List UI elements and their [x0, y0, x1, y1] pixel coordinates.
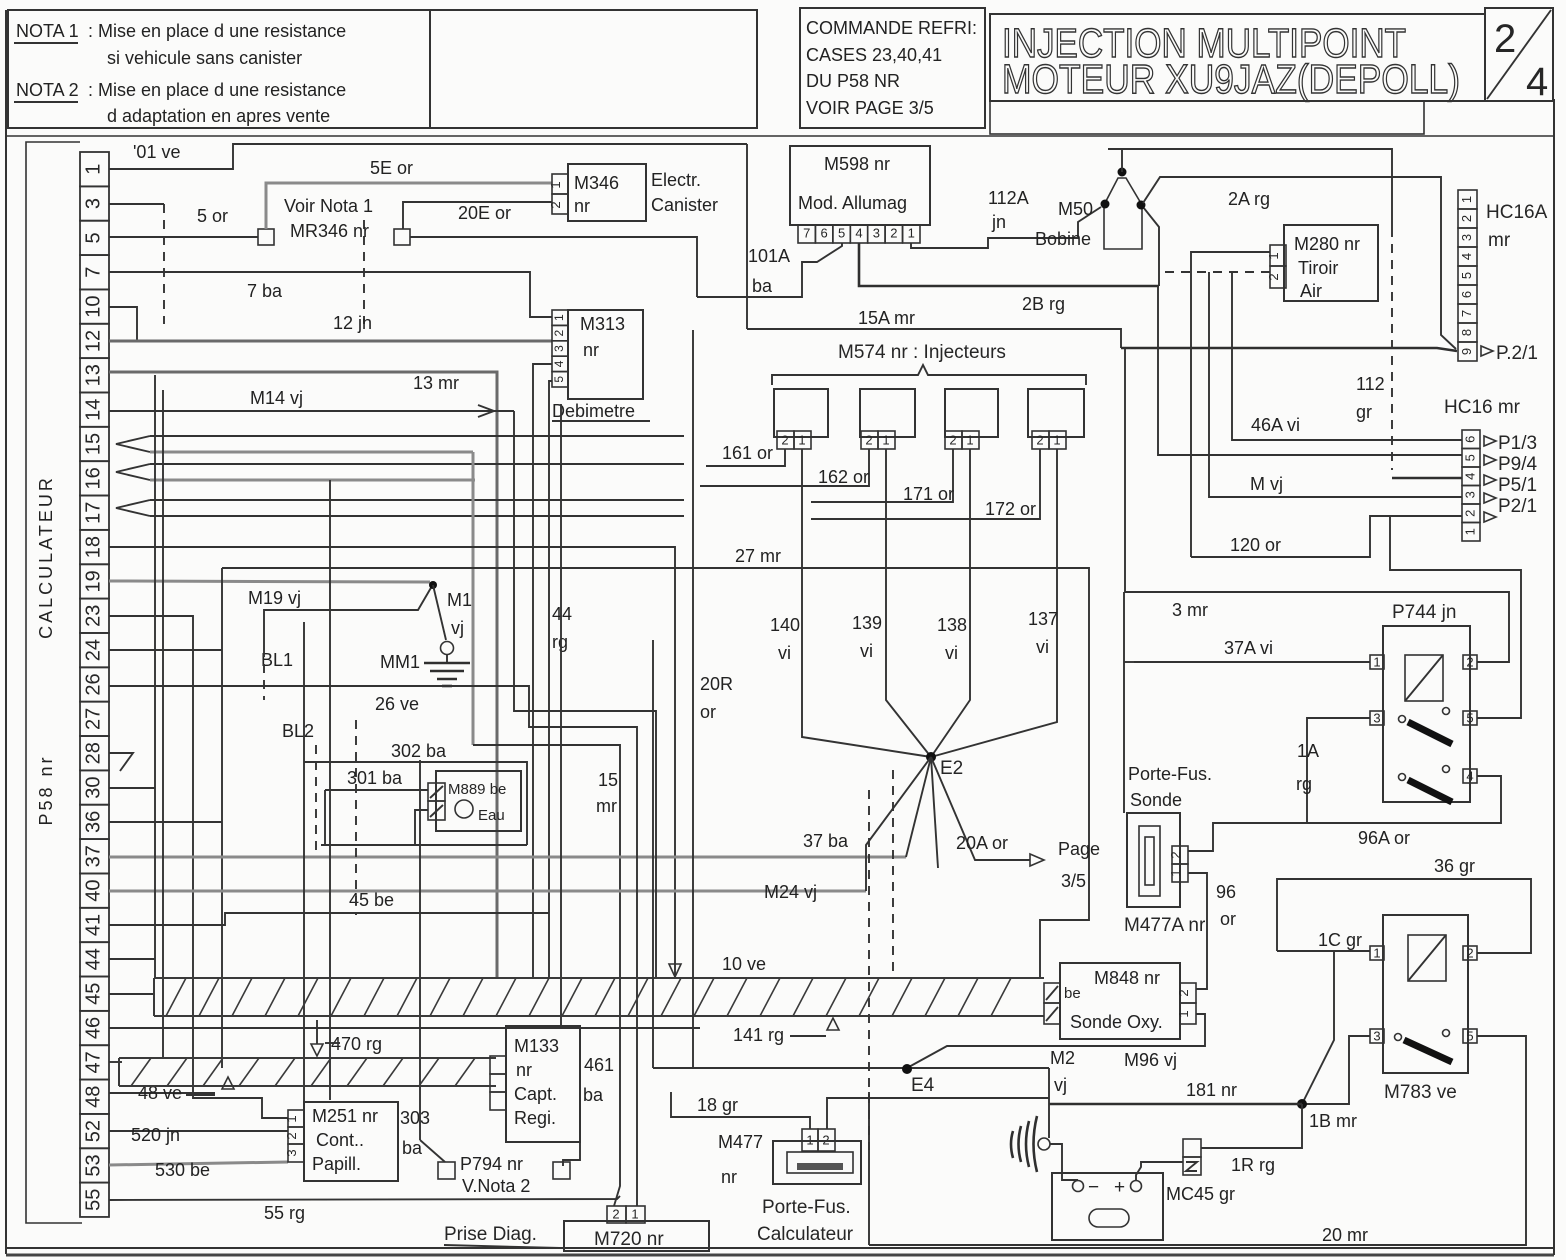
wire coil minus to HC16 pin5 — [1158, 286, 1462, 455]
svg-text:E4: E4 — [911, 1075, 935, 1096]
svg-text:Porte-Fus.: Porte-Fus. — [762, 1197, 851, 1218]
wire to M313 pin4 — [533, 364, 552, 978]
svg-text:37 ba: 37 ba — [803, 831, 849, 851]
pair wires pin17 to diag connector — [150, 499, 684, 501]
canister valve M346 — [548, 164, 718, 221]
svg-text:rg: rg — [1296, 774, 1312, 794]
svg-text:Regi.: Regi. — [514, 1108, 556, 1128]
svg-text:7: 7 — [1459, 310, 1474, 317]
svg-text:5: 5 — [552, 376, 566, 383]
svg-text:41: 41 — [82, 914, 104, 936]
wire pin 30 — [109, 787, 155, 789]
throttle pot M251 — [284, 1102, 398, 1181]
svg-text:36 gr: 36 gr — [1434, 856, 1475, 876]
svg-text:461: 461 — [584, 1055, 614, 1075]
wire M14 vj (pin 14) with arrow — [109, 410, 514, 412]
wire 46A vi — [1232, 272, 1462, 440]
wire M vj — [1209, 272, 1462, 497]
bus vertical x155 — [154, 375, 156, 978]
svg-text:V.Nota 2: V.Nota 2 — [462, 1176, 530, 1196]
svg-text:27: 27 — [82, 708, 104, 730]
ignition module M598 — [790, 146, 930, 225]
svg-text:1B mr: 1B mr — [1309, 1111, 1357, 1131]
svg-text:96: 96 — [1216, 882, 1236, 902]
svg-text:18 gr: 18 gr — [697, 1095, 738, 1115]
svg-text:4: 4 — [1459, 253, 1474, 260]
svg-text:CASES 23,40,41: CASES 23,40,41 — [806, 45, 942, 65]
wire M783 pin3 to 1B node — [1303, 1036, 1370, 1104]
wire E2 to 37ba — [906, 757, 931, 857]
svg-text:Page: Page — [1058, 839, 1100, 859]
wire 20E or — [403, 202, 552, 229]
svg-text:2: 2 — [865, 432, 872, 447]
water temp sensor M889 — [428, 771, 521, 831]
svg-text:8: 8 — [1459, 329, 1474, 336]
wire 301 ba — [325, 789, 428, 791]
svg-text:17: 17 — [82, 502, 104, 524]
svg-text:1: 1 — [552, 314, 566, 321]
twisted pair chevron pin 17 — [116, 500, 150, 516]
svg-text:NOTA 1: NOTA 1 — [16, 21, 79, 41]
svg-text:1: 1 — [82, 164, 104, 175]
svg-text:P5/1: P5/1 — [1498, 475, 1537, 496]
svg-text:3: 3 — [284, 1149, 299, 1156]
svg-text:302 ba: 302 ba — [391, 741, 447, 761]
wire pin 18 — [109, 547, 675, 978]
wire 1C branch to 1B node — [1303, 951, 1334, 1102]
wire 5E or — [266, 183, 552, 229]
wire 13 mr (pin 13 to M313 pin3) — [109, 372, 497, 978]
shielded harness band 1 — [154, 978, 1044, 1016]
svg-text:3: 3 — [1459, 234, 1474, 241]
header bottom rule — [6, 135, 1554, 137]
svg-text:4: 4 — [552, 360, 566, 367]
svg-text:2: 2 — [1176, 989, 1191, 996]
svg-text:45: 45 — [82, 983, 104, 1005]
wire pin 47 into band — [109, 1061, 122, 1063]
svg-text:1: 1 — [284, 1115, 299, 1122]
bus vertical x330 — [329, 480, 331, 1100]
svg-text:2: 2 — [1168, 851, 1183, 858]
node E2 — [926, 752, 936, 762]
wire 26 ve — [109, 686, 637, 1206]
svg-text:1: 1 — [548, 181, 563, 188]
svg-text:23: 23 — [82, 605, 104, 627]
wire 2A rg (coil to HC16A pin9) — [1143, 177, 1456, 349]
svg-text:96A or: 96A or — [1358, 828, 1410, 848]
svg-text:Mod. Allumag: Mod. Allumag — [798, 193, 907, 213]
svg-text:10 ve: 10 ve — [722, 954, 766, 974]
svg-text:vj: vj — [451, 618, 464, 638]
svg-text:6: 6 — [1459, 291, 1474, 298]
svg-text:1: 1 — [1266, 252, 1281, 259]
svg-text:162 or: 162 or — [818, 467, 869, 487]
svg-text:mr: mr — [596, 796, 617, 816]
svg-text:13 mr: 13 mr — [413, 373, 459, 393]
svg-text:40: 40 — [82, 879, 104, 901]
svg-text:47: 47 — [82, 1051, 104, 1073]
svg-text:1: 1 — [882, 432, 889, 447]
svg-text:P1/3: P1/3 — [1498, 433, 1537, 454]
svg-text:44: 44 — [552, 604, 572, 624]
svg-text:138: 138 — [937, 615, 967, 635]
svg-text:7: 7 — [803, 225, 810, 240]
svg-text:7: 7 — [82, 267, 104, 278]
wire 55 rg (pin 55) — [109, 1196, 620, 1200]
wire 120 or — [1191, 516, 1462, 557]
svg-text:141 rg: 141 rg — [733, 1025, 784, 1045]
injector 2 — [860, 389, 915, 437]
svg-text:112: 112 — [1356, 374, 1385, 394]
svg-text:M133: M133 — [514, 1036, 559, 1056]
page border right — [1553, 99, 1555, 1255]
connector HC16A — [1458, 190, 1477, 361]
svg-text:2A rg: 2A rg — [1228, 189, 1270, 209]
svg-text:3: 3 — [552, 345, 566, 352]
svg-text:5: 5 — [1462, 454, 1477, 461]
fuse holder M477 (Porte-Fus. Calculateur) — [718, 1129, 861, 1245]
svg-text:7 ba: 7 ba — [247, 281, 283, 301]
dashed shield BL1 — [263, 648, 265, 700]
svg-text:5: 5 — [838, 225, 845, 240]
svg-text:112A: 112A — [988, 188, 1029, 208]
svg-text:53: 53 — [82, 1154, 104, 1176]
svg-text:2: 2 — [949, 432, 956, 447]
svg-text:COMMANDE REFRI:: COMMANDE REFRI: — [806, 18, 977, 38]
svg-text:530 be: 530 be — [155, 1160, 210, 1180]
svg-text:4: 4 — [1526, 60, 1548, 104]
wire 48 ve (pin 48) — [109, 1092, 215, 1094]
svg-text:nr: nr — [721, 1167, 737, 1187]
svg-text:27 mr: 27 mr — [735, 546, 781, 566]
svg-text:3: 3 — [1373, 710, 1380, 725]
svg-text:48: 48 — [82, 1086, 104, 1108]
svg-text:12: 12 — [82, 330, 104, 352]
svg-text:Prise Diag.: Prise Diag. — [444, 1224, 537, 1245]
svg-text:nr: nr — [583, 340, 599, 360]
svg-text:5: 5 — [1459, 272, 1474, 279]
marker 470 rg — [311, 1044, 323, 1056]
svg-text:M50: M50 — [1058, 199, 1093, 219]
arrow P.2/1 — [1481, 346, 1493, 356]
svg-text:Voir Nota 1: Voir Nota 1 — [284, 196, 373, 216]
switch M1 contact — [429, 581, 437, 589]
wire 20 mr (M783 pin5 loop) — [869, 1036, 1526, 1245]
wire 140 vi (injector1 to E2) — [802, 449, 931, 757]
svg-text:18: 18 — [82, 536, 104, 558]
svg-text:1A: 1A — [1297, 741, 1319, 761]
svg-text:24: 24 — [82, 639, 104, 661]
svg-text:+: + — [1114, 1177, 1125, 1198]
svg-text:CALCULATEUR: CALCULATEUR — [36, 475, 56, 639]
diagnostic socket M720 — [564, 1206, 709, 1251]
marker 141 rg — [827, 1018, 839, 1030]
wire 12 jn (pin 12 to M313 pin2) — [109, 340, 552, 343]
coil M50 body — [1104, 178, 1142, 249]
svg-text:140: 140 — [770, 615, 800, 635]
NOTA text — [16, 21, 346, 126]
COMMANDE box — [800, 8, 985, 128]
fuse holder M477A (Porte-Fus. Sonde) — [1124, 764, 1212, 936]
svg-text:1: 1 — [1176, 1010, 1191, 1017]
connector P58 CALCULATEUR outline box — [26, 142, 82, 1223]
wire to M313 pin5 — [549, 381, 552, 978]
vertical pair x493/504 — [514, 411, 656, 978]
svg-text:vi: vi — [1036, 637, 1049, 657]
svg-text:46A vi: 46A vi — [1251, 415, 1300, 435]
air flow meter M313 — [552, 310, 650, 421]
connector strip P58 (31 pins) — [80, 152, 109, 1217]
wire pin 24 — [109, 649, 222, 651]
ground MM1 — [446, 654, 448, 663]
svg-text:ba: ba — [752, 276, 773, 296]
wire E2 middle stub — [931, 757, 938, 868]
injector 4 — [1028, 389, 1084, 437]
svg-text:15A mr: 15A mr — [858, 308, 915, 328]
svg-text:5 or: 5 or — [197, 206, 228, 226]
svg-text:P794 nr: P794 nr — [460, 1154, 523, 1174]
svg-text:3: 3 — [82, 198, 104, 209]
svg-text:HC16A: HC16A — [1486, 202, 1548, 223]
svg-text:172 or: 172 or — [985, 499, 1036, 519]
wire M477A pin1 down to M848 pin2 — [1188, 873, 1207, 989]
svg-text:Cont..: Cont.. — [316, 1130, 364, 1150]
svg-text:vi: vi — [945, 643, 958, 663]
svg-text:5: 5 — [1466, 710, 1473, 725]
wire E2 to M24 vj — [866, 757, 931, 891]
svg-text:d adaptation en apres vente: d adaptation en apres vente — [107, 106, 330, 126]
svg-text:M251 nr: M251 nr — [312, 1106, 378, 1126]
wire 36 gr — [1277, 879, 1531, 953]
resistor MR346 left terminal — [258, 229, 274, 245]
svg-text:30: 30 — [82, 776, 104, 798]
wire pin 3 with dashed drop — [109, 203, 164, 205]
M598 pin row 7..1 — [798, 225, 920, 243]
svg-text:3 mr: 3 mr — [1172, 600, 1208, 620]
svg-text:mr: mr — [1488, 230, 1511, 251]
svg-text:1C gr: 1C gr — [1318, 930, 1362, 950]
wire 181 nr — [1049, 1103, 1302, 1106]
title text — [1002, 20, 1460, 102]
diode MC45 — [1166, 1139, 1275, 1204]
svg-text:9: 9 — [1459, 348, 1474, 355]
svg-text:36: 36 — [82, 811, 104, 833]
wire MC45 to 1B node — [1201, 1104, 1302, 1148]
svg-text:1: 1 — [1168, 869, 1183, 876]
wire 37 ba (pin 37) — [109, 856, 906, 859]
svg-text:12 jn: 12 jn — [333, 313, 372, 333]
svg-text:Electr.: Electr. — [651, 170, 701, 190]
wire 162 or — [700, 449, 869, 486]
svg-text:2: 2 — [781, 432, 788, 447]
svg-text:Canister: Canister — [651, 195, 718, 215]
svg-text:Porte-Fus.: Porte-Fus. — [1128, 764, 1212, 784]
shielded harness band 2 — [119, 1058, 496, 1086]
svg-text:44: 44 — [82, 948, 104, 970]
svg-text:15: 15 — [82, 433, 104, 455]
svg-text:4: 4 — [855, 225, 862, 240]
svg-text:14: 14 — [82, 399, 104, 421]
bus vertical x163 — [162, 390, 164, 1058]
air valve M280 — [1266, 225, 1378, 301]
svg-text:M783 ve: M783 ve — [1384, 1082, 1457, 1103]
svg-text:: Mise en place d une resistan: : Mise en place d une resistance — [88, 21, 346, 41]
svg-text:1R rg: 1R rg — [1231, 1155, 1275, 1175]
resistor MR346 right terminal — [394, 229, 410, 245]
wire 101A ba link — [697, 243, 842, 297]
coil terminal dots — [1118, 168, 1127, 177]
svg-text:470 rg: 470 rg — [331, 1034, 382, 1054]
wire pin 45 into band — [109, 993, 155, 995]
title box — [990, 14, 1485, 101]
svg-text:Air: Air — [1300, 281, 1322, 301]
wire 18 gr — [671, 1092, 810, 1129]
svg-text:6: 6 — [1462, 436, 1477, 443]
svg-text:or: or — [1220, 909, 1236, 929]
svg-text:M477A nr: M477A nr — [1124, 915, 1206, 936]
resistor P794 left terminal — [438, 1162, 455, 1179]
svg-text:2: 2 — [1036, 432, 1043, 447]
dashed bus x893 — [892, 770, 894, 978]
svg-text:−: − — [1088, 1177, 1099, 1198]
twisted pair chevron pin 16 — [116, 464, 150, 480]
svg-text:181 nr: 181 nr — [1186, 1080, 1237, 1100]
wire dashed M280 pin2 — [1160, 271, 1270, 273]
wire M19 vj (pin 19) — [109, 581, 430, 582]
oxygen sensor M848 — [1044, 963, 1196, 1039]
svg-text:M280 nr: M280 nr — [1294, 234, 1360, 254]
svg-text:Papill.: Papill. — [312, 1154, 361, 1174]
wire 530 be (pin 53 to M251) — [109, 1162, 288, 1165]
wire vertical junction x747 ('01/7ba) — [746, 144, 748, 329]
svg-text:nr: nr — [516, 1060, 532, 1080]
wire 20A or to page 3/5 — [931, 757, 1030, 860]
svg-text:ba: ba — [583, 1085, 604, 1105]
NOTA extension box — [430, 10, 757, 128]
wire E4 line — [653, 1067, 1049, 1069]
wire battery box to 20mr — [868, 1092, 870, 1150]
svg-text:2: 2 — [1459, 215, 1474, 222]
svg-text:BL1: BL1 — [261, 650, 293, 670]
svg-text:2: 2 — [890, 225, 897, 240]
wire 3 mr loop around P744 — [1125, 348, 1509, 662]
wire M96 vj (M848 pin1) — [907, 1014, 1205, 1068]
svg-text:M14 vj: M14 vj — [250, 388, 303, 408]
svg-text:1: 1 — [966, 432, 973, 447]
svg-text:MC45 gr: MC45 gr — [1166, 1184, 1235, 1204]
pair wires pin15 — [150, 435, 684, 437]
wire pin 23 — [109, 616, 288, 1118]
svg-text:rg: rg — [552, 632, 568, 652]
svg-text:20E or: 20E or — [458, 203, 511, 223]
wire P744 pin5 to HC16 pin2 — [1390, 516, 1521, 718]
svg-text:5: 5 — [1466, 1028, 1473, 1043]
wire 37A vi — [1134, 661, 1370, 663]
wire pin 36 — [109, 821, 222, 823]
svg-text:2: 2 — [284, 1132, 299, 1139]
wire 2B rg (M598 pin4 to coil) — [859, 243, 1159, 286]
svg-text:M24 vj: M24 vj — [764, 882, 817, 902]
arrows P1/3 P9/4 P5/1 P2/1 — [1484, 436, 1496, 522]
throttle sensor M133 — [490, 1026, 580, 1142]
svg-text:2: 2 — [1466, 945, 1473, 960]
svg-text:3: 3 — [1373, 1028, 1380, 1043]
wire 138 vi — [931, 449, 970, 757]
svg-text:vj: vj — [1054, 1075, 1067, 1095]
svg-text:303: 303 — [400, 1108, 430, 1128]
svg-text:28: 28 — [82, 742, 104, 764]
svg-text:M346: M346 — [574, 173, 619, 193]
svg-text:120 or: 120 or — [1230, 535, 1281, 555]
NOTA box — [8, 10, 430, 128]
svg-text:20A or: 20A or — [956, 833, 1008, 853]
dashed bus x869 — [868, 790, 870, 1150]
svg-text:P58 nr: P58 nr — [36, 754, 56, 825]
svg-text:4: 4 — [1466, 768, 1473, 783]
wire 171 or — [811, 449, 953, 502]
svg-text:P.2/1: P.2/1 — [1496, 343, 1538, 364]
svg-text:301 ba: 301 ba — [347, 768, 403, 788]
wire MC45 to battery plus — [1136, 1162, 1183, 1181]
bus vertical x571 to P794 — [560, 404, 562, 1026]
svg-text:55: 55 — [82, 1189, 104, 1211]
svg-text:NOTA 2: NOTA 2 — [16, 80, 79, 100]
big box left edge x1124 — [1123, 592, 1125, 813]
wire 112 gr (coil top to HC16 pin4) — [1108, 149, 1392, 228]
svg-text:or: or — [700, 702, 716, 722]
svg-text:Tiroir: Tiroir — [1298, 258, 1338, 278]
svg-text:5: 5 — [82, 232, 104, 243]
svg-text:Debimetre: Debimetre — [552, 401, 635, 421]
wire 45 be (pin 41) — [109, 913, 549, 925]
bus vertical x304 — [303, 622, 305, 1117]
wire pin 44 — [109, 958, 155, 960]
svg-text:2: 2 — [548, 201, 563, 208]
svg-text:Bobine: Bobine — [1035, 229, 1091, 249]
svg-text:1: 1 — [1373, 945, 1380, 960]
svg-text:P744 jn: P744 jn — [1392, 602, 1456, 623]
svg-text:BL2: BL2 — [282, 721, 314, 741]
svg-text:1: 1 — [1459, 196, 1474, 203]
svg-text:15: 15 — [598, 770, 618, 790]
title strip below — [990, 101, 1424, 134]
svg-text:5E or: 5E or — [370, 158, 413, 178]
svg-text:16: 16 — [82, 467, 104, 489]
svg-text:M720 nr: M720 nr — [594, 1229, 664, 1250]
wire 161 or — [706, 449, 785, 466]
wire from MR346 to M598 (via 237/697) — [410, 237, 697, 297]
svg-text:2: 2 — [1466, 654, 1473, 669]
svg-text:37A vi: 37A vi — [1224, 638, 1273, 658]
wire 96A or (P744 pin4 to M477A) — [1188, 776, 1501, 851]
page border bottom (double) — [6, 1247, 1554, 1249]
wire 5 or (pin 5 to MR346) — [109, 236, 258, 238]
svg-text:si vehicule sans canister: si vehicule sans canister — [107, 48, 302, 68]
svg-text:M598 nr: M598 nr — [824, 154, 890, 174]
svg-text:M477: M477 — [718, 1132, 763, 1152]
svg-text:HC16 mr: HC16 mr — [1444, 397, 1521, 418]
wire M598 pin1 to coil — [911, 207, 1101, 248]
connector HC16 — [1462, 430, 1480, 541]
svg-text:Capt.: Capt. — [514, 1084, 557, 1104]
svg-text:137: 137 — [1028, 609, 1058, 629]
svg-text:2: 2 — [1494, 17, 1516, 61]
injector 1 — [774, 389, 828, 437]
svg-text:161 or: 161 or — [722, 443, 773, 463]
svg-text:E2: E2 — [940, 758, 963, 779]
resistor P794 right terminal — [553, 1162, 570, 1179]
svg-text:1: 1 — [806, 1132, 813, 1147]
